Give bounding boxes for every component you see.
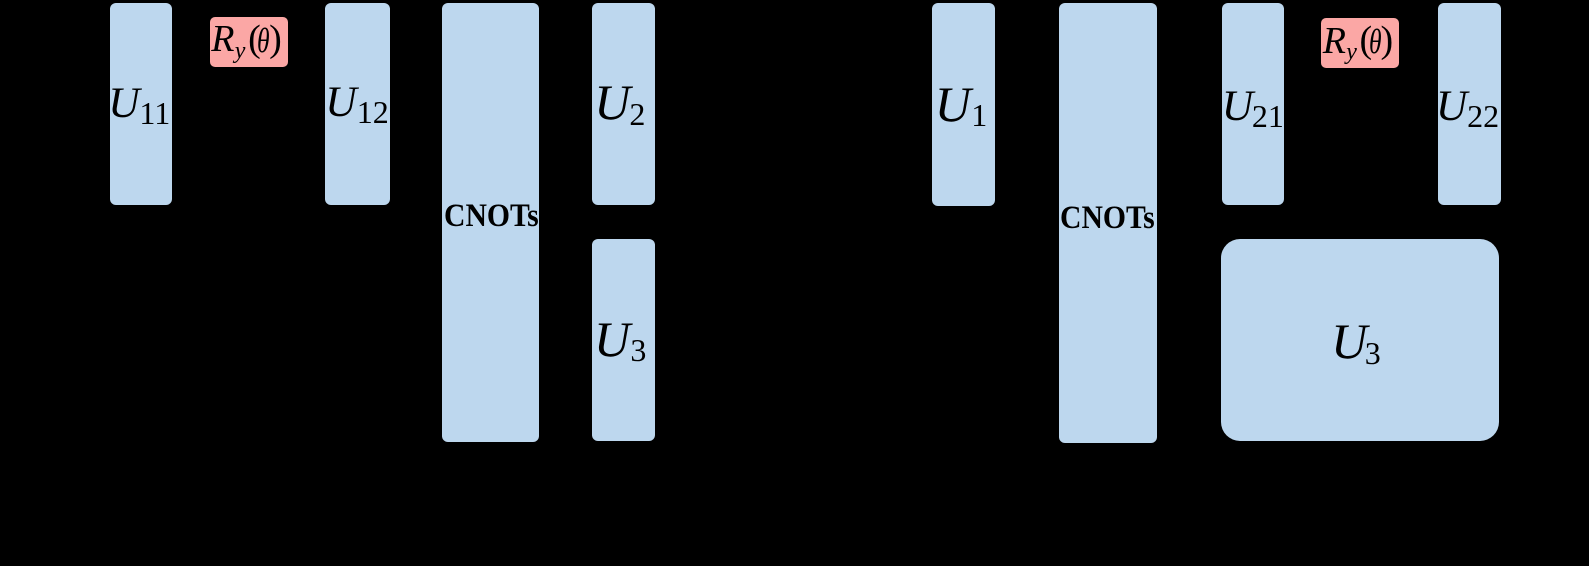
- label U3 big: [1331, 316, 1367, 366]
- label U21: [1222, 85, 1253, 129]
- label Ry(theta) left: [211, 20, 234, 58]
- gate box U21: [1222, 3, 1284, 205]
- label Ry(theta) right: [1323, 22, 1346, 60]
- gate box U12: [325, 3, 390, 205]
- label U11: [108, 82, 139, 126]
- gate box U2: [592, 3, 655, 205]
- label CNOTs left: [444, 200, 539, 233]
- label CNOTs right: [1060, 202, 1155, 235]
- gate box U3 left: [592, 239, 655, 441]
- CNOTs block left: [442, 3, 539, 442]
- gate box Ry(theta) left: [210, 17, 288, 67]
- gate box U1: [932, 3, 995, 206]
- label U2: [594, 77, 630, 127]
- gate box U22: [1438, 3, 1501, 205]
- label U22: [1436, 85, 1467, 129]
- label U12: [325, 81, 356, 125]
- gate box Ry(theta) right: [1321, 18, 1399, 68]
- label U1: [935, 79, 971, 129]
- CNOTs block right: [1059, 3, 1157, 443]
- gate box U11: [110, 3, 172, 205]
- label U3 left: [594, 314, 630, 364]
- gate box U3 big right: [1221, 239, 1499, 441]
